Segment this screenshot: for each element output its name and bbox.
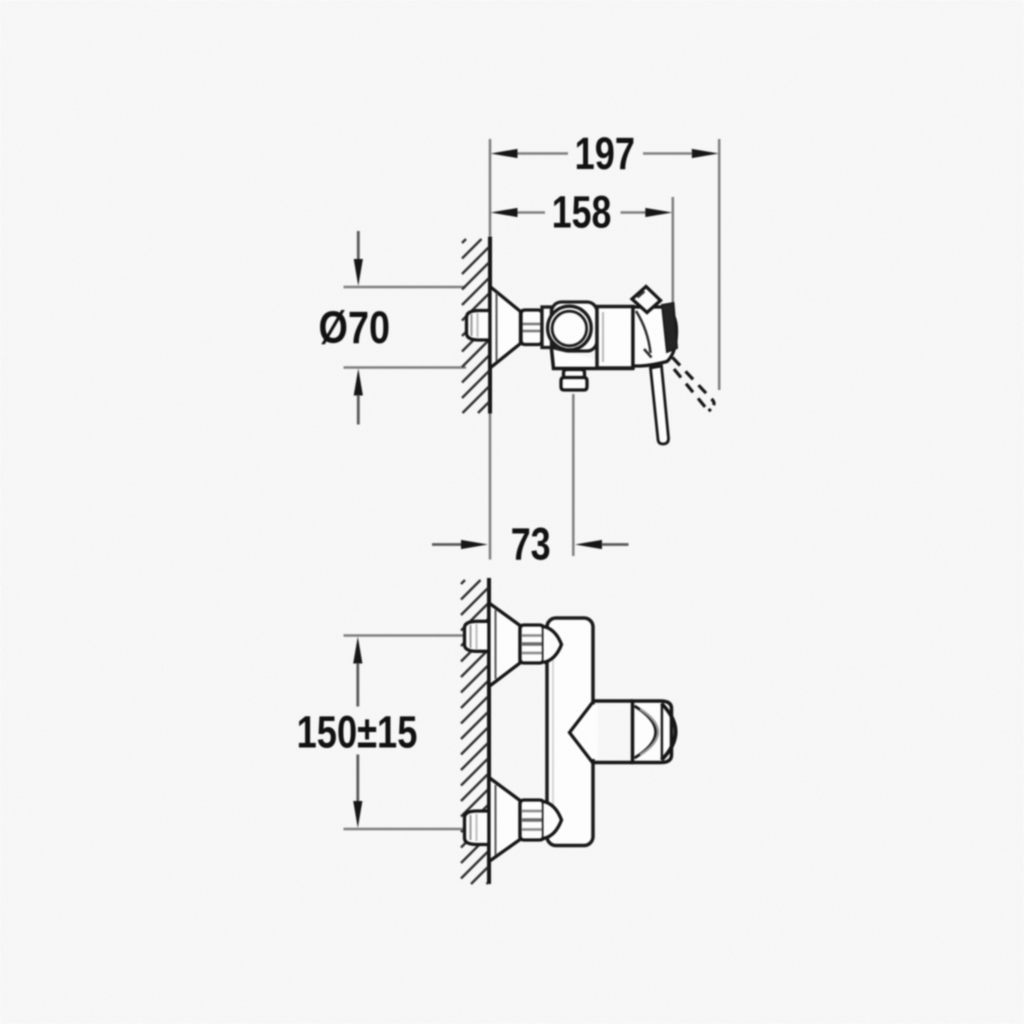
body lower lobe (top view) <box>552 349 635 369</box>
bottom connection bulge (bottom view) <box>544 802 562 839</box>
S-union escutcheon cone (top view) <box>490 287 521 369</box>
dimension 150+-15 <box>297 637 418 829</box>
bottom supply stub behind wall (bottom view) <box>465 811 490 845</box>
outlet opening erases body edge <box>587 705 598 760</box>
dimension 73 <box>432 519 629 570</box>
top escutcheon cone (bottom view) <box>489 603 520 687</box>
top connection bulge (bottom view) <box>544 627 562 663</box>
outlet inner dome arc (bottom view) <box>635 706 656 758</box>
extension line 158 right <box>672 197 675 306</box>
handle dome cap (top view) <box>633 307 677 366</box>
lever knob end (top view) <box>632 287 661 313</box>
outlet nut (bottom view) <box>633 701 672 763</box>
top supply stub behind wall (bottom view) <box>465 621 490 651</box>
collar / check valve (top view) <box>542 307 552 348</box>
lever rod solid (top view) <box>651 366 669 444</box>
lever rod dashed alternate position (top view) <box>673 358 713 400</box>
diverter knob (top view) <box>564 370 585 379</box>
union nut (top view) <box>521 310 542 345</box>
chevron inlet marker (bottom view) <box>570 703 593 763</box>
dimension O70 <box>319 231 466 425</box>
wall hatching top view <box>462 239 489 413</box>
cartridge housing (top view) <box>552 302 598 351</box>
extension line wall (197/158 left) <box>489 139 492 236</box>
lever shaft over dome (top view) <box>662 303 677 352</box>
supply pipe stub behind wall (top view) <box>467 311 491 341</box>
wall extension continues down (73 left ext) <box>489 414 492 560</box>
wall line top view <box>488 237 492 414</box>
outlet tube (bottom view) <box>593 701 633 763</box>
wall line bottom view <box>487 578 491 884</box>
cartridge circle inner (top view) <box>552 311 587 346</box>
faucet body (bottom view) <box>547 618 593 846</box>
dimension 158 <box>491 187 673 238</box>
top union nut (bottom view) <box>520 625 544 663</box>
wall hatching bottom view <box>461 580 488 884</box>
bottom union nut (bottom view) <box>520 800 544 840</box>
dimension 150+-15 extension lines <box>344 634 465 637</box>
cartridge circle outer (top view) <box>548 306 592 350</box>
outlet dome face (bottom view) <box>662 704 676 761</box>
dimension 197 <box>491 128 719 179</box>
extension line 197 right <box>718 139 721 390</box>
paper noise overlay <box>0 0 1 1</box>
extension line 73 right (from knob) <box>572 394 575 556</box>
right valve body (top view) <box>597 307 633 369</box>
bottom escutcheon cone (bottom view) <box>489 778 520 862</box>
